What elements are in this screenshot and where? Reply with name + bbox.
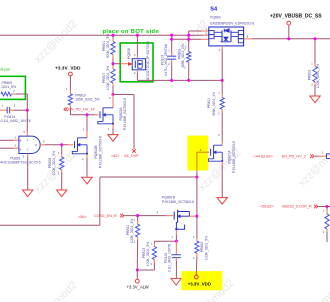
ground under PQ802B (82, 177, 92, 184)
ground under PC815 (171, 278, 181, 285)
node junction +20V tap (287, 37, 290, 40)
wire AND gnd drop (27, 154, 29, 191)
node junction PR802 tap (313, 37, 316, 40)
label PR802 (308, 64, 320, 88)
pin numbers PR808 (58, 151, 60, 176)
transistor Q PQ807B (174, 210, 189, 231)
yellow highlight box 2 (181, 271, 222, 290)
node junction PC815 (175, 240, 178, 243)
svg-text:100K_0201_3%: 100K_0201_3% (106, 66, 110, 90)
wire PR811 to PQ807A drain (221, 109, 223, 145)
svg-text:PR802: PR802 (308, 70, 312, 81)
wire PR822 bottom lead (195, 253, 198, 275)
wire PR813 top bend (154, 241, 176, 246)
label PC815 (164, 243, 171, 272)
wire PC815 to gnd (175, 258, 177, 279)
wire AND output (40, 144, 73, 146)
net label CON2_EN_R (94, 214, 124, 218)
wire right rail y=38.2 (244, 38, 330, 40)
pin numbers PR813 (151, 241, 153, 266)
green box hot pad (0, 76, 25, 99)
pin numbers PQ802A (108, 96, 111, 131)
node junction EN_PD_HV_1 (85, 113, 88, 116)
ground under PQ807A (217, 198, 227, 205)
ground under PU801 (23, 190, 33, 197)
resistor PR822 (195, 241, 199, 253)
svg-text:place on BOT side: place on BOT side (103, 29, 160, 35)
svg-text:+3.3V_ALW: +3.3V_ALW (127, 284, 149, 289)
node junctions on y=80.4 (170, 79, 224, 82)
wire PQ808 gate wire (113, 63, 128, 65)
text PQ800 refdes (210, 16, 220, 20)
wire PQ807B source down (175, 230, 177, 241)
capacitor PC813 (167, 56, 176, 59)
label PC813 (160, 43, 168, 76)
svg-text:hot pad: hot pad (0, 68, 10, 72)
wire PR822 top lead (196, 216, 198, 241)
label PR807 (102, 66, 110, 90)
pin numbers PC813 (168, 48, 170, 66)
resistor PR810 (68, 94, 72, 105)
label PR822 (200, 236, 208, 260)
node junction dots on top rails (111, 34, 190, 41)
svg-text:ACS32T211C 1P SOT23-3: ACS32T211C 1P SOT23-3 (146, 41, 150, 81)
wire PR821 top lead (137, 216, 139, 225)
svg-text:<44,82,84>: <44,82,84> (254, 155, 274, 159)
wire vertical x=188.7 (PQ800 pins tie) (188, 31, 190, 80)
svg-text:+3.3V_VDD: +3.3V_VDD (55, 65, 81, 71)
svg-text:<56>: <56> (78, 215, 87, 219)
text hot pad (0, 68, 10, 72)
resistor PR8x right edge (325, 214, 329, 229)
svg-text:100K_0201_5%: 100K_0201_5% (75, 98, 99, 102)
label PC814 (1, 115, 32, 123)
ground under PR802 (310, 96, 320, 103)
label PQ807A (228, 141, 236, 173)
text PQ800 value (210, 21, 254, 25)
pin numbers PR802 (311, 62, 313, 87)
capacitor PC815 (172, 255, 181, 258)
svg-text:300K_0201_3%: 300K_0201_3% (106, 34, 110, 58)
resistor PR821 (136, 224, 140, 237)
label PR801 (102, 34, 110, 58)
wire AND input 1 (0, 139, 19, 141)
power +3.3V_VDD left (55, 65, 81, 94)
pin numbers PR803 (184, 45, 187, 69)
svg-text:EN_PD_HV_2: EN_PD_HV_2 (282, 155, 306, 159)
wire PQ802B drain drop (86, 115, 88, 138)
pin numbers PR822 (193, 235, 195, 260)
capacitor PC814 (0, 107, 27, 114)
svg-text:100K_0201_5%: 100K_0201_5% (52, 151, 56, 175)
wire PQ800 pin4 drop x=222.2 (221, 46, 223, 81)
text green place on BOT side (103, 29, 160, 35)
wire PR809 to AND vcc (12, 94, 28, 110)
svg-text:PJX138K_SCT563-6: PJX138K_SCT563-6 (232, 141, 236, 173)
pin number PQ807B gate (157, 211, 159, 215)
power +20V_VBUSB_DC_SS (270, 14, 322, 39)
node junction PC814 (26, 109, 29, 112)
transistor Q PQ802B (72, 138, 88, 155)
node junction PR821 tap (136, 214, 139, 217)
svg-text:0201_5%: 0201_5% (2, 85, 17, 89)
net label VBUS2_ECOK_R (260, 204, 318, 208)
svg-text:100K_0201_5%: 100K_0201_5% (204, 236, 208, 260)
resistor PR808 (60, 157, 64, 169)
net label EN_PD_HV_2 (254, 154, 314, 158)
ground under PR808 (57, 190, 67, 197)
wire VBUS2_ECOK_R (318, 206, 330, 208)
svg-text:PQ800: PQ800 (210, 16, 220, 20)
pin number PQ807B src (171, 235, 173, 239)
svg-text:<82>: <82> (111, 154, 120, 158)
wire PR802 leads (314, 39, 316, 96)
pin box right edge (327, 154, 330, 159)
wire PR813 bottom bend (137, 260, 154, 271)
node junction con2/gate net (195, 175, 198, 178)
wire PQ808 drain drop (136, 35, 138, 59)
pin numbers PR810 (66, 87, 68, 91)
pin number PQ807A drain (218, 133, 220, 137)
node junction gate tap PQ808 (111, 62, 114, 65)
pin number PQ807A gate (200, 148, 202, 152)
transistor Q PQ808 (128, 59, 145, 70)
wire CON2_EN_R (124, 215, 174, 217)
wire vertical x=171.7 (PC813 branch) (171, 35, 173, 80)
node junction S4_OVP tap (111, 93, 114, 96)
svg-text:499K_0201_1%: 499K_0201_1% (212, 92, 216, 116)
wire PR801-PR807 link (112, 55, 114, 70)
wire AND input 2 (0, 147, 19, 149)
pin numbers PR821 (134, 218, 136, 243)
wire riser x=99.85 (99, 177, 101, 225)
wire AND vcc drop (26, 110, 28, 136)
wire PQ807A gate wire (197, 152, 209, 171)
wire PQ800 pin3 stub y=39.3 (172, 38, 209, 40)
label PU801 (0, 156, 41, 164)
svg-text:S4_OVP: S4_OVP (124, 154, 139, 158)
ground under PQ802A (108, 135, 118, 142)
label PQ808 package (146, 41, 150, 81)
wire EN_PD_HV_2 (315, 155, 327, 157)
wire PQ807A source to gnd (221, 161, 223, 197)
wire PQ802B source to gnd (86, 154, 88, 178)
label PR821 (126, 219, 134, 243)
svg-text:EMZ808PGDV_EDFN2X2-6: EMZ808PGDV_EDFN2X2-6 (210, 21, 254, 25)
node junction PQ807B drain (195, 215, 198, 218)
svg-text:CON2_EN_R: CON2_EN_R (94, 214, 117, 218)
svg-text:100K_0201_3%: 100K_0201_3% (316, 64, 320, 88)
svg-text:PQ808: PQ808 (127, 48, 131, 59)
svg-text:VBUS2_ECOK_R: VBUS2_ECOK_R (282, 204, 312, 208)
wire PR808 to gnd (61, 170, 63, 191)
yellow highlight box 1 (187, 136, 208, 171)
label PQ808 (127, 48, 131, 59)
svg-text:PR811: PR811 (207, 98, 211, 108)
label PR811 (207, 92, 216, 116)
pin number PR809 (13, 89, 15, 93)
label PQ802A (119, 98, 127, 130)
resistor PR801 (111, 42, 115, 55)
wire source bus y=80.4 (137, 79, 222, 81)
wire PQ800 pin1 stub y=31 (189, 30, 209, 32)
node junction VBUS2 (325, 205, 328, 208)
svg-text:0.1U_0402_10VTK: 0.1U_0402_10VTK (167, 243, 171, 272)
node junction +3.3V_ALW (136, 268, 139, 271)
pin numbers PU801 (15, 130, 45, 159)
svg-text:+20V_VBUSB_DC_SS: +20V_VBUSB_DC_SS (270, 14, 322, 20)
wire PR807 bottom lead (112, 83, 114, 95)
svg-text:74HC1G08DFT2G_SC70-5: 74HC1G08DFT2G_SC70-5 (0, 161, 41, 165)
svg-text:C: C (27, 149, 29, 152)
transistor Q PQ807A (208, 145, 223, 162)
svg-text:EN_PD_HV_1#: EN_PD_HV_1# (68, 108, 95, 112)
label PR808 (48, 151, 56, 175)
pin numbers PC814 (2, 104, 16, 108)
green box place-on-bot (PQ808) (120, 43, 153, 82)
power +3.3V_ALW (127, 270, 149, 289)
resistor PR807 (111, 69, 115, 83)
svg-text:S4: S4 (210, 6, 218, 12)
op-amp gate U PU801 (19, 136, 40, 153)
pin numbers PQ800 (206, 27, 249, 52)
pin numbers PR8x (323, 208, 325, 234)
svg-text:<58,82>: <58,82> (260, 204, 275, 208)
wire PQ807B drain to node (189, 215, 197, 217)
wire PQ802A source to gnd (112, 124, 114, 135)
net label S4_OVP (111, 154, 139, 158)
svg-text:100K_0201_5%: 100K_0201_5% (146, 242, 150, 266)
label PR810 (75, 94, 99, 102)
resistor PR811 (220, 98, 224, 110)
wire S4_OVP branch (113, 95, 134, 150)
transistor Q PQ802A (98, 108, 114, 125)
wire PR8x bottom lead (326, 229, 328, 242)
wire top rail +20V gate net y=35.2 (0, 34, 209, 36)
resistor PR809 (1, 81, 16, 96)
wire PR821 bottom lead (136, 237, 138, 270)
wire con2 horiz y=177.9 (100, 176, 197, 178)
wire PR811 top lead (221, 80, 223, 97)
svg-text:+3.3V_VDD: +3.3V_VDD (188, 281, 211, 286)
resistor PR802 (313, 67, 317, 82)
pin numbers PQ802B (82, 128, 85, 162)
svg-text:O: O (35, 143, 37, 147)
wire PR808 top lead (61, 145, 63, 157)
node junction AND out (60, 143, 63, 146)
label PR803 (177, 44, 185, 68)
dual MOSFET U PQ800 (209, 27, 244, 46)
svg-text:0.47U_0402_25VTAK: 0.47U_0402_25VTAK (164, 43, 168, 76)
pin number EN_PD_HV_2 (322, 150, 324, 154)
wire PR801 top lead (112, 35, 114, 41)
wire PQ802A drain (112, 95, 114, 108)
wire gate net drop x=196.9 (196, 171, 198, 216)
wire bottom rail y=225.2 (0, 224, 100, 226)
wire PR8x top lead (326, 207, 328, 214)
wire PC815 top lead (175, 241, 177, 254)
svg-text:PJX138K_SCT563-6: PJX138K_SCT563-6 (123, 98, 127, 130)
resistor PR813 (152, 247, 156, 260)
power +3.3V_VDD bottom (188, 271, 211, 286)
svg-text:PJX138K_SCT563-6: PJX138K_SCT563-6 (162, 200, 194, 204)
pin numbers PQ808 (134, 53, 136, 75)
no-connect X S4_OVP (132, 149, 135, 152)
text S4 title (210, 6, 218, 12)
label PQ802B (94, 136, 102, 168)
wire PQ808 source drop (136, 70, 138, 81)
resistor PR803 (187, 52, 191, 63)
label PR813 (142, 242, 150, 266)
wire PR810 bottom to EN_PD_HV_1# (70, 105, 98, 115)
pin numbers PR811 (218, 91, 220, 115)
net label 56 (78, 215, 87, 219)
net label EN_PD_HV_1# (64, 107, 96, 111)
label PQ807B (162, 196, 194, 204)
svg-text:PJX138K_SCT563-6: PJX138K_SCT563-6 (98, 136, 102, 168)
